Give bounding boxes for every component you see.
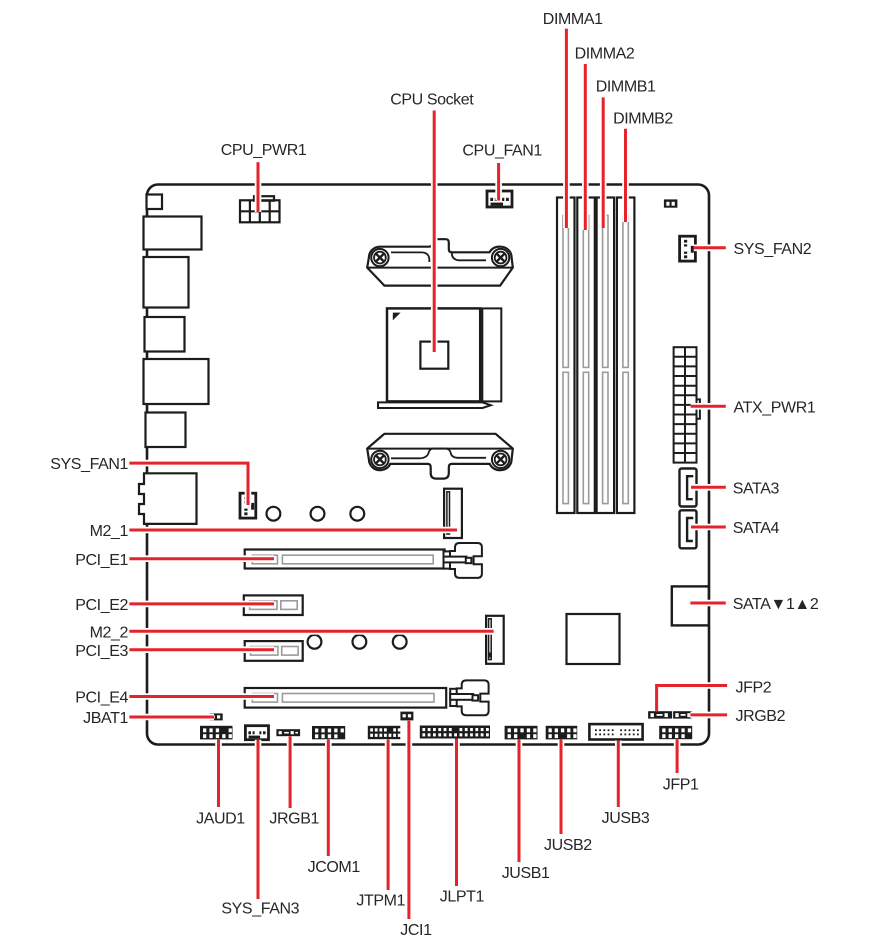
sata box SATA12 (672, 586, 709, 625)
svg-text:SATA3: SATA3 (733, 480, 780, 497)
header JLPT1 (420, 726, 490, 739)
mounting hole row1 a (267, 507, 281, 521)
svg-text:JFP2: JFP2 (736, 680, 772, 697)
svg-text:PCI_E1: PCI_E1 (75, 552, 128, 569)
cpu socket side plate (482, 308, 501, 401)
header JUSB1 (505, 726, 538, 740)
io port usb block1 (144, 217, 202, 250)
header JFP1 (659, 726, 692, 739)
chipset (567, 614, 620, 664)
cpu socket lever bar (378, 402, 491, 408)
svg-text:PCI_E3: PCI_E3 (75, 643, 128, 660)
connector SYS_FAN3 (245, 726, 268, 740)
header JRGB1 (276, 729, 300, 736)
mounting hole row1 b (311, 507, 325, 521)
svg-text:JTPM1: JTPM1 (356, 892, 405, 909)
dimm slot DIMMA2 (577, 198, 595, 514)
io port audio block (139, 473, 197, 524)
svg-text:JCI1: JCI1 (400, 922, 432, 939)
svg-text:SATA▼1▲2: SATA▼1▲2 (733, 596, 819, 613)
svg-text:JUSB3: JUSB3 (602, 810, 650, 827)
svg-text:PCI_E2: PCI_E2 (75, 597, 128, 614)
svg-text:JRGB2: JRGB2 (736, 708, 786, 725)
io port lan block (144, 257, 189, 308)
dimm slot DIMMB1 (597, 198, 615, 514)
cpu socket square (387, 308, 480, 401)
svg-text:SATA4: SATA4 (733, 520, 780, 537)
screw left top (371, 249, 388, 266)
svg-text:JBAT1: JBAT1 (83, 710, 128, 727)
io port usb block3 (146, 413, 186, 448)
connector SYS_FAN2 (680, 236, 696, 261)
pcie latch PCI_E4 (450, 680, 488, 715)
svg-text:PCI_E4: PCI_E4 (75, 690, 128, 707)
dimm slot DIMMA1 (557, 198, 575, 514)
cpu socket inner square (420, 342, 448, 369)
jumper top right (664, 199, 678, 207)
svg-text:SYS_FAN1: SYS_FAN1 (50, 456, 128, 473)
pcie slot PCI_E2 (244, 595, 303, 615)
io port small square (147, 195, 163, 210)
pcie latch PCI_E1 (444, 543, 482, 578)
svg-text:DIMMB1: DIMMB1 (596, 79, 656, 96)
svg-text:DIMMA2: DIMMA2 (575, 45, 635, 62)
svg-text:JFP1: JFP1 (663, 777, 699, 794)
board outline (147, 185, 709, 745)
svg-text:CPU Socket: CPU Socket (390, 91, 474, 108)
header JCOM1 (312, 726, 345, 739)
svg-text:DIMMA1: DIMMA1 (543, 11, 603, 28)
dimm slot DIMMB2 (617, 198, 635, 514)
slot inner channels (gray) (250, 215, 629, 702)
connector CPU_PWR1 (8-pin) (240, 196, 280, 222)
lead white casings (129, 29, 727, 919)
screw right bottom (492, 451, 509, 468)
pcie slot PCI_E4 (245, 688, 447, 708)
cpu socket pin1 triangle (393, 313, 401, 321)
mounting hole row1 c (350, 507, 364, 521)
m.2 slot M2_2 (486, 616, 504, 664)
screw right top (492, 249, 509, 266)
header JRGB2 (673, 711, 692, 718)
connector CPU_FAN1 (487, 191, 512, 207)
svg-text:CPU_PWR1: CPU_PWR1 (221, 142, 307, 159)
svg-text:JUSB2: JUSB2 (544, 837, 592, 854)
svg-text:JCOM1: JCOM1 (308, 859, 361, 876)
connector SYS_FAN1 (240, 493, 256, 518)
svg-text:M2_1: M2_1 (90, 523, 129, 540)
svg-text:SYS_FAN2: SYS_FAN2 (734, 241, 812, 258)
svg-text:M2_2: M2_2 (90, 624, 129, 641)
io port usb block2 (145, 317, 185, 352)
io port video block (144, 359, 209, 404)
mounting hole row2 b (353, 635, 367, 649)
pcie slot PCI_E3 (245, 641, 303, 661)
header JUSB3 (589, 724, 642, 739)
jumper JBAT1 (209, 713, 222, 720)
svg-text:JAUD1: JAUD1 (196, 811, 245, 828)
cpu retention bracket bottom (367, 434, 513, 479)
mounting hole row2 c (393, 635, 407, 649)
svg-text:DIMMB2: DIMMB2 (613, 111, 673, 128)
svg-text:SYS_FAN3: SYS_FAN3 (221, 901, 299, 918)
header JTPM1 (368, 726, 401, 739)
svg-text:ATX_PWR1: ATX_PWR1 (734, 399, 816, 416)
svg-text:JLPT1: JLPT1 (440, 889, 485, 906)
lead red lines (129, 29, 727, 919)
cpu retention bracket top (367, 239, 513, 285)
connector ATX_PWR1 (24-pin) (674, 347, 700, 462)
header JUSB2 (546, 726, 578, 740)
sata port SATA3 (680, 469, 697, 507)
header JAUD1 (200, 726, 233, 740)
mounting hole row2 a (308, 635, 322, 649)
m.2 slot M2_1 (444, 489, 462, 538)
pcie slot PCI_E1 (245, 550, 445, 569)
jumper JCI1 (400, 712, 413, 721)
screw left bottom (371, 451, 388, 468)
svg-text:JUSB1: JUSB1 (502, 865, 550, 882)
sata port SATA4 (680, 510, 697, 548)
svg-text:JRGB1: JRGB1 (269, 811, 319, 828)
svg-text:CPU_FAN1: CPU_FAN1 (462, 143, 542, 160)
header JFP2 (648, 711, 672, 718)
